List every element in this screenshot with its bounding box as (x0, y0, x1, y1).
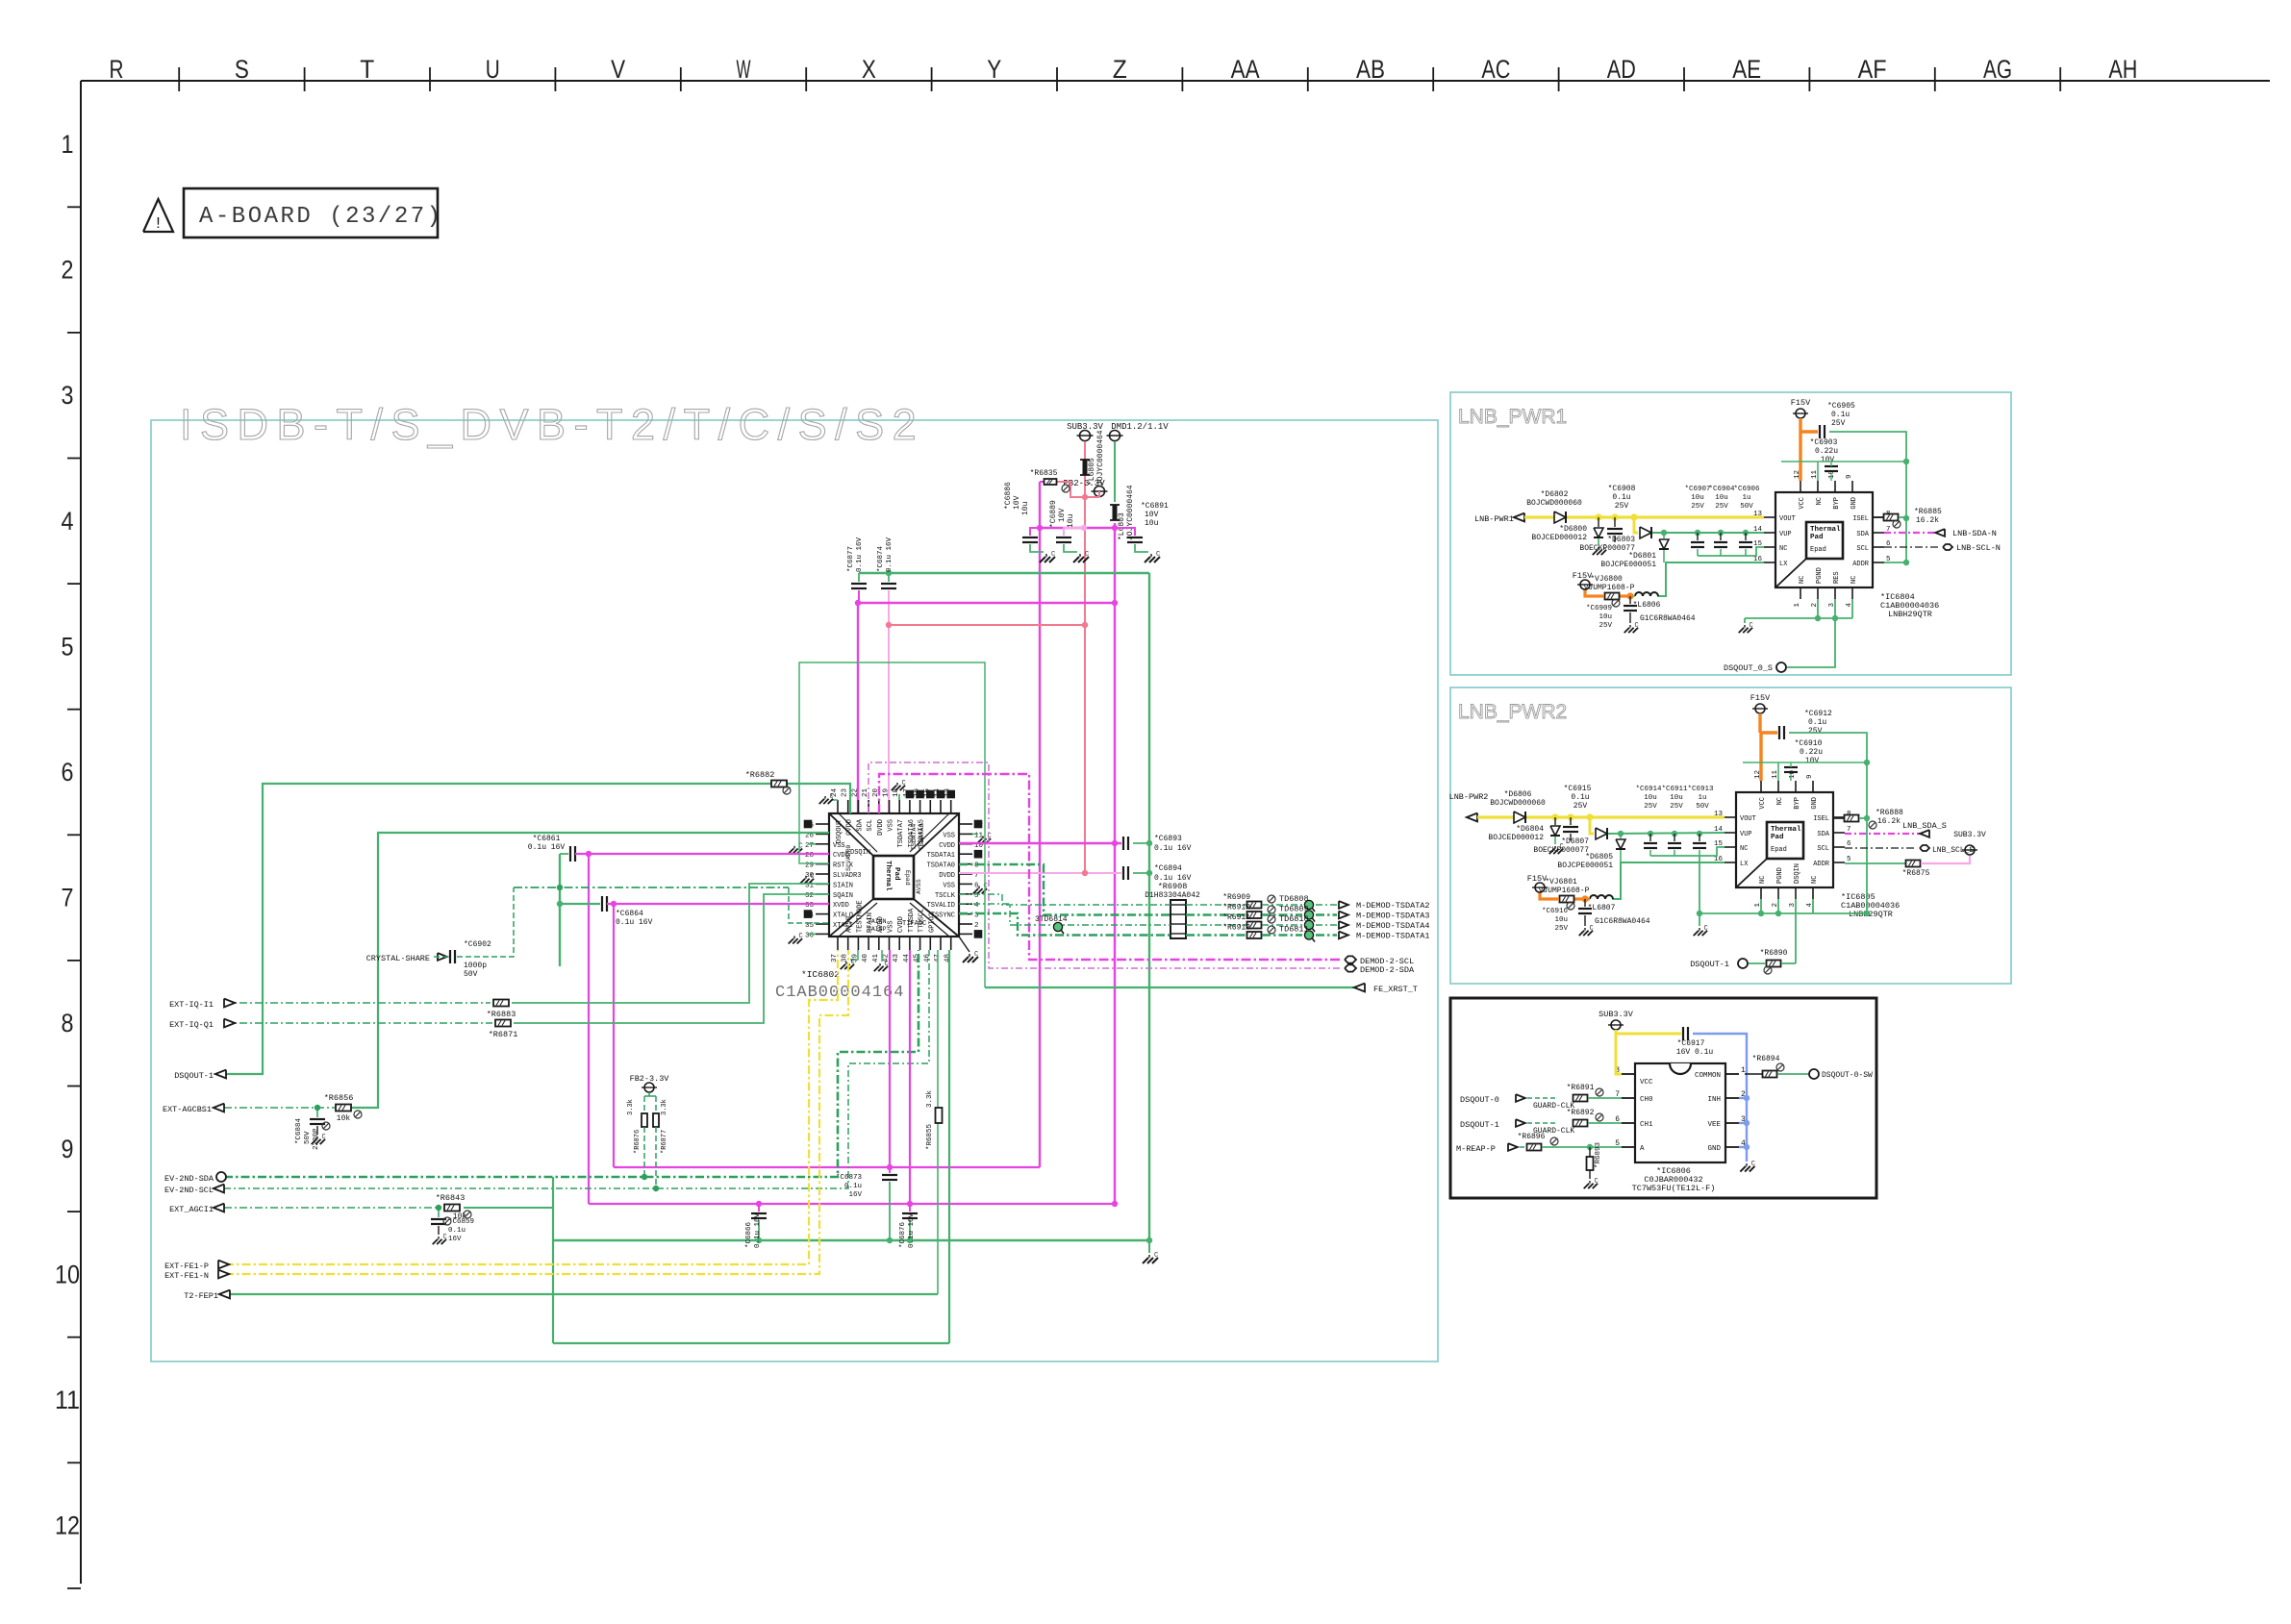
svg-text:1u: 1u (1742, 494, 1750, 502)
svg-text:32: 32 (805, 892, 814, 900)
wire DEMOD-2-SDA (thin magenta dash) (869, 762, 1343, 968)
wire CVDD cap rail (green) (559, 854, 561, 966)
IC6806 pin 2 (1725, 1097, 1739, 1099)
svg-text:VSS: VSS (943, 832, 955, 839)
svg-text:R: R (110, 55, 124, 84)
IC6802 pin 5 (959, 893, 972, 895)
wire EXT-FE1-P (yellow dash) (225, 950, 838, 1264)
capacitor C6893 (1122, 837, 1124, 850)
wire green top rail (1829, 432, 1906, 563)
capacitor C6884 (316, 1108, 318, 1117)
svg-text:25V: 25V (1670, 803, 1683, 811)
resistor R6855 (936, 1108, 943, 1123)
svg-text:3: 3 (62, 381, 74, 410)
svg-text:C: C (1156, 551, 1160, 559)
svg-text:*C6864: *C6864 (616, 910, 643, 918)
svg-text:25V: 25V (1573, 802, 1588, 811)
IC6802 pin 22 (857, 800, 859, 813)
IC6802 pin 42 (889, 937, 891, 950)
resistor *R6912 (1247, 932, 1262, 938)
svg-text:DSQOUT-1: DSQOUT-1 (174, 1071, 214, 1081)
thermal pad (1806, 522, 1843, 559)
zener D6804 (1554, 817, 1556, 825)
svg-text:M-REAP-P: M-REAP-P (1456, 1144, 1496, 1154)
svg-text:F15V: F15V (1527, 874, 1548, 884)
terminator pin12 (974, 820, 981, 827)
IC6806 pin 4 (1725, 1146, 1739, 1148)
svg-text:BYP: BYP (1833, 497, 1841, 510)
svg-text:DSQOUT_0_S: DSQOUT_0_S (1724, 663, 1773, 673)
pin 11 (1777, 781, 1779, 792)
IC6802 pin 12 (959, 823, 972, 825)
svg-text:TC7W53FU(TE12L-F): TC7W53FU(TE12L-F) (1632, 1184, 1716, 1193)
svg-text:DSQIN: DSQIN (1794, 863, 1801, 884)
svg-text:*C6906: *C6906 (1733, 486, 1760, 493)
svg-text:C: C (443, 1234, 447, 1241)
svg-text:10V: 10V (1013, 495, 1021, 510)
svg-text:6: 6 (974, 882, 979, 889)
svg-text:1000p: 1000p (464, 962, 487, 970)
thermal pad (1767, 822, 1803, 859)
svg-text:AA: AA (1231, 55, 1260, 84)
row tick (67, 960, 81, 962)
IC6802 pin 9 (959, 853, 972, 855)
pin 16 (1764, 562, 1775, 563)
IC6802 corner diagonals (829, 813, 873, 856)
svg-text:VUP: VUP (1779, 531, 1792, 538)
pin 8 (1873, 516, 1884, 518)
wire TSDATA line 3 (959, 904, 1171, 925)
row tick (67, 1337, 81, 1338)
svg-text:C: C (830, 793, 834, 801)
ground pins 39-41 (850, 950, 858, 960)
svg-text:NC: NC (1799, 576, 1806, 584)
svg-text:COMMON: COMMON (1695, 1072, 1721, 1080)
wire LX loop (green) (1612, 862, 1725, 899)
svg-text:AH: AH (2108, 55, 2137, 84)
svg-text:Epad: Epad (1771, 846, 1787, 854)
svg-text:C: C (1704, 925, 1708, 933)
svg-text:1: 1 (62, 130, 74, 159)
svg-text:*R6911: *R6911 (1222, 913, 1250, 922)
svg-text:LX: LX (1740, 861, 1749, 868)
svg-text:DVDD: DVDD (939, 872, 955, 880)
wire EV-2ND-SCL (dash green) (224, 950, 929, 1188)
resistor R6876 network (648, 1092, 650, 1096)
svg-text:TESTMODE: TESTMODE (856, 900, 864, 933)
svg-text:*R6877: *R6877 (661, 1130, 668, 1154)
row tick (67, 709, 81, 711)
svg-text:*R6888: *R6888 (1876, 809, 1903, 817)
svg-text:0.1u 16V: 0.1u 16V (754, 1212, 762, 1248)
svg-text:*R6835: *R6835 (1030, 469, 1058, 478)
svg-text:GPIO2: GPIO2 (928, 912, 936, 933)
wire SUB3.3V rail (salmon) (1084, 441, 1086, 873)
pin 1 (1800, 587, 1801, 599)
svg-text:EXT_AGCI1: EXT_AGCI1 (169, 1205, 214, 1214)
svg-text:TSDATA1: TSDATA1 (927, 852, 955, 860)
wire VCC (yellow) (1616, 1030, 1681, 1034)
svg-text:G1C6R8WA0464: G1C6R8WA0464 (1595, 917, 1650, 926)
svg-text:5: 5 (62, 632, 74, 661)
resistor R6896 (1527, 1144, 1542, 1151)
svg-text:U: U (486, 55, 500, 84)
svg-text:16V: 16V (448, 1236, 462, 1243)
svg-text:TAINN: TAINN (868, 918, 887, 925)
svg-text:*C6877: *C6877 (847, 546, 855, 572)
svg-text:*R6876: *R6876 (634, 1130, 642, 1154)
svg-text:43: 43 (893, 954, 900, 963)
terminator pin13 top (947, 790, 954, 797)
warning triangle (143, 199, 173, 232)
svg-text:NC: NC (1759, 876, 1767, 884)
svg-text:ISEL: ISEL (1813, 815, 1829, 823)
svg-text:T: T (360, 55, 374, 84)
ground pin36 (808, 933, 816, 935)
terminator pin1 (974, 931, 981, 937)
svg-text:2: 2 (974, 922, 979, 930)
IC6802 pin 20 (878, 800, 880, 813)
resistor *R6910 (1247, 912, 1262, 918)
LNB_PWR1 block border (1450, 392, 2011, 675)
diode D6805 (1620, 834, 1622, 838)
svg-text:9: 9 (1846, 474, 1853, 479)
svg-text:AVSS: AVSS (846, 916, 854, 933)
svg-text:1u: 1u (1698, 794, 1706, 802)
svg-text:C1AB00004164: C1AB00004164 (775, 984, 904, 1002)
svg-text:C: C (851, 959, 855, 966)
svg-text:16.2k: 16.2k (1916, 516, 1939, 525)
ground pin11 (972, 833, 978, 835)
svg-text:VEE: VEE (1707, 1121, 1721, 1129)
TSDATA arrow (1339, 901, 1348, 909)
wire DEMOD-2-SCL (bold magenta dash-dot) (879, 774, 1343, 960)
wire TSDATA line 4 (959, 913, 1171, 936)
svg-text:F15V: F15V (1791, 398, 1811, 408)
wire ADDR (green) (1884, 562, 1906, 563)
svg-text:*C6889: *C6889 (1049, 500, 1058, 528)
svg-text:VUP: VUP (1740, 831, 1752, 838)
IC6802 pin 4 (959, 903, 972, 905)
wire PB2 stub (salmon) (1070, 482, 1099, 497)
wire pin28 (magenta) (575, 853, 829, 855)
svg-text:NC: NC (1850, 576, 1858, 584)
svg-text:M-DEMOD-TSDATA4: M-DEMOD-TSDATA4 (1356, 921, 1430, 931)
svg-text:GND: GND (1850, 497, 1858, 510)
svg-text:1: 1 (1794, 603, 1801, 608)
svg-text:Pad: Pad (1810, 534, 1824, 541)
svg-text:VCC: VCC (1640, 1079, 1653, 1087)
svg-text:10V: 10V (1821, 456, 1835, 464)
svg-text:TSDATA3: TSDATA3 (919, 824, 925, 850)
svg-text:10V: 10V (1145, 511, 1159, 519)
terminator pin15 top (927, 790, 934, 797)
svg-text:C: C (799, 933, 803, 940)
svg-text:NC: NC (1740, 845, 1748, 853)
svg-text:DVDD: DVDD (877, 819, 885, 836)
IC6802 pin 16 (919, 800, 921, 813)
row tick (67, 458, 81, 460)
ground pins 42 (881, 950, 883, 962)
wire thin green frame (799, 662, 985, 987)
IC6802 pin 25 (816, 823, 829, 825)
svg-text:*R6908: *R6908 (1158, 882, 1188, 891)
column tick (2059, 67, 2061, 91)
svg-text:46: 46 (923, 954, 931, 963)
wire LX loop (green) (1657, 562, 1764, 596)
pin 9 (1851, 481, 1853, 492)
svg-text:M-DEMOD-TSDATA2: M-DEMOD-TSDATA2 (1356, 901, 1430, 911)
IC6802 pin 18 (898, 800, 900, 813)
svg-text:S: S (235, 55, 249, 84)
IC6802 pin 37 (837, 937, 839, 950)
svg-text:3.3k: 3.3k (661, 1099, 668, 1115)
IC6802 pin 47 (940, 937, 942, 950)
svg-text:Thermal: Thermal (884, 861, 892, 891)
resistor R6856 (336, 1105, 351, 1112)
svg-text:*D6800: *D6800 (1559, 525, 1587, 534)
svg-text:*C6884: *C6884 (295, 1117, 303, 1144)
svg-text:50V: 50V (304, 1131, 312, 1144)
svg-text:C: C (1751, 1161, 1755, 1168)
wire TSDATA line 2 (959, 864, 1171, 915)
svg-text:BOJCED000012: BOJCED000012 (1488, 834, 1544, 842)
svg-text:SLVADR0: SLVADR0 (845, 845, 852, 871)
svg-text:*C6909: *C6909 (1586, 605, 1612, 612)
wire LNB-SCL-N (black dash-dot) (1884, 546, 1939, 548)
ground bus y1290 (1148, 1240, 1150, 1253)
diode D6807 (1596, 828, 1607, 839)
svg-text:AB: AB (1356, 55, 1385, 84)
svg-text:PGND: PGND (1776, 867, 1784, 884)
svg-text:*C6904: *C6904 (1708, 486, 1735, 493)
svg-text:10u: 10u (1715, 494, 1728, 502)
svg-text:A: A (1640, 1145, 1645, 1153)
svg-text:10: 10 (55, 1260, 80, 1288)
row tick (67, 1211, 81, 1212)
svg-text:SLVADR3: SLVADR3 (833, 872, 861, 880)
svg-text:LNB_SDA_S: LNB_SDA_S (1902, 821, 1947, 831)
wire EXT_AGCI1 (dash green) (224, 1207, 441, 1209)
wire yellow to D6807 (1590, 817, 1594, 834)
svg-text:NC: NC (1776, 797, 1784, 805)
svg-text:DSQOUT-0: DSQOUT-0 (1460, 1095, 1499, 1105)
svg-text:*C6912: *C6912 (1804, 710, 1832, 718)
svg-text:SDA: SDA (1856, 531, 1869, 538)
svg-text:EXT-IQ-I1: EXT-IQ-I1 (169, 1000, 214, 1010)
pin 5 (1873, 562, 1884, 563)
svg-text:NC: NC (1811, 876, 1819, 884)
svg-text:6: 6 (1847, 840, 1851, 848)
column tick (1934, 67, 1936, 91)
svg-text:AF: AF (1858, 55, 1887, 84)
IC6802 pin 38 (847, 937, 849, 950)
wire magenta vertical x612 (588, 854, 590, 1204)
resistor R6875 + SUB3.3V (1845, 862, 1905, 864)
IC6806 pin 3 (1725, 1122, 1739, 1124)
svg-text:EXT-AGCBS1: EXT-AGCBS1 (163, 1105, 212, 1114)
svg-text:0.1u 16V: 0.1u 16V (616, 918, 653, 927)
svg-text:*D6806: *D6806 (1504, 790, 1532, 799)
wire green vertical x575 to bottom rail (552, 1177, 554, 1343)
resistor R6894 (1763, 1071, 1777, 1078)
IC6802 pin 44 (909, 937, 911, 950)
svg-text:DMD1.2/1.1V: DMD1.2/1.1V (1111, 422, 1169, 432)
svg-text:DSQOUT-1: DSQOUT-1 (1460, 1120, 1499, 1130)
TSDATA arrow (1339, 921, 1348, 929)
pin 14 (1725, 832, 1736, 834)
svg-text:0.1u: 0.1u (844, 1183, 862, 1190)
svg-text:*R6875: *R6875 (1902, 869, 1930, 878)
svg-text:M-DEMOD-TSDATA3: M-DEMOD-TSDATA3 (1356, 912, 1430, 921)
svg-text:25V: 25V (1831, 419, 1846, 428)
svg-text:0.1u: 0.1u (448, 1227, 466, 1235)
svg-text:EXT-FE1-N: EXT-FE1-N (164, 1271, 209, 1281)
diode D6802 (1554, 512, 1566, 523)
pin 7 (1833, 832, 1845, 834)
svg-text:0.1u: 0.1u (1808, 718, 1826, 727)
svg-text:VSS: VSS (888, 819, 895, 832)
column tick (1683, 67, 1685, 91)
IC6802 pin 31 (816, 883, 829, 885)
svg-text:0.22u: 0.22u (1815, 447, 1838, 456)
svg-text:*VJ6800: *VJ6800 (1590, 575, 1623, 584)
svg-text:ISDB-T/S_DVB-T2/T/C/S/S2: ISDB-T/S_DVB-T2/T/C/S/S2 (180, 400, 924, 449)
svg-text:C: C (1595, 1178, 1599, 1186)
terminator pin17 top (906, 790, 913, 797)
capacitor C6917 (1682, 1027, 1684, 1040)
svg-text:Y: Y (987, 55, 1001, 84)
resistor *R6911 (1247, 922, 1262, 929)
svg-text:*C6893: *C6893 (1154, 835, 1182, 843)
capacitor C6876 (909, 1204, 911, 1212)
capacitor C6909 (1629, 596, 1631, 604)
svg-text:LX: LX (1779, 561, 1788, 568)
IC6802 pin 15 (929, 800, 931, 813)
svg-text:Pad: Pad (1771, 834, 1784, 841)
svg-text:*R6885: *R6885 (1914, 508, 1942, 516)
svg-text:TSDATA4: TSDATA4 (911, 824, 918, 850)
svg-text:TD6808: TD6808 (1279, 894, 1309, 904)
terminator pin25 (804, 820, 811, 827)
svg-text:*D6804: *D6804 (1516, 825, 1544, 834)
wire caps gnd bus to NC pin (1698, 555, 1746, 557)
IC U-IC6802 demodulator body (829, 813, 959, 937)
svg-text:*C6903: *C6903 (1810, 438, 1838, 447)
resistor R6871 (495, 1020, 511, 1027)
IC6802 pin 26 (816, 833, 829, 835)
svg-text:LNB-SDA-N: LNB-SDA-N (1952, 529, 1997, 538)
IC6802 thermal pad (873, 856, 914, 899)
wire DMD1.2 rail (green) (1114, 441, 1116, 502)
svg-text:*C6905: *C6905 (1827, 402, 1855, 411)
IC6802 pin 17 (909, 800, 911, 813)
IC6802 pin 6 (959, 883, 972, 885)
resistor R6890 (1767, 961, 1781, 967)
svg-text:*C6861: *C6861 (533, 835, 561, 843)
pin 6 (1873, 546, 1884, 548)
svg-text:C: C (1051, 551, 1055, 559)
svg-text:*C6859: *C6859 (448, 1218, 474, 1226)
svg-text:45: 45 (914, 954, 921, 963)
resistor R6888 (1833, 817, 1844, 819)
svg-text:CVDD: CVDD (939, 842, 955, 850)
column tick (178, 67, 180, 91)
terminator pin34 (804, 911, 811, 917)
pin 4 (1851, 587, 1853, 599)
svg-text:*C6894: *C6894 (1154, 864, 1182, 873)
IC6802 pin 45 (919, 937, 921, 950)
svg-text:*R6896: *R6896 (1518, 1133, 1546, 1141)
IC6802 pin 8 (959, 863, 972, 865)
pin 11 (1817, 481, 1819, 492)
pin 3 (1795, 887, 1797, 899)
svg-text:ADDR: ADDR (1813, 861, 1830, 868)
IC6802 pin 11 (959, 833, 972, 835)
terminator pin16 top (917, 790, 923, 797)
svg-text:TD6811: TD6811 (1279, 925, 1309, 935)
wire VUP (green) (1608, 833, 1725, 834)
svg-text:AG: AG (1983, 55, 2012, 84)
capacitor C6916 (1584, 899, 1586, 907)
inductor L6803 (1113, 505, 1117, 520)
svg-text:*C6916: *C6916 (1542, 908, 1569, 915)
svg-text:*C6917: *C6917 (1677, 1039, 1705, 1048)
svg-text:EV-2ND-SDA: EV-2ND-SDA (164, 1174, 214, 1184)
wire magenta bus y627 (858, 602, 1115, 604)
svg-text:ISEL: ISEL (1852, 515, 1869, 523)
wire EXT-FE1-N (yellow dash) (225, 950, 848, 1274)
pin 2 (1777, 887, 1779, 899)
svg-text:LNB_PWR1: LNB_PWR1 (1458, 406, 1567, 428)
wire pin19 net (light pink) (888, 590, 890, 813)
svg-text:10u: 10u (1145, 519, 1159, 528)
pin 10 (1795, 781, 1797, 792)
svg-text:C: C (811, 873, 815, 881)
wire DSQOUT-1 net (green) (226, 784, 850, 1074)
IC6802 pin 41 (878, 937, 880, 950)
wire DSQOUT_0_S (green) (1787, 618, 1835, 667)
svg-text:XVDD: XVDD (833, 902, 849, 910)
sheet title box A-BOARD (23/27) (184, 188, 438, 237)
svg-text:LNB_PWR2: LNB_PWR2 (1458, 701, 1567, 723)
svg-text:*R6909: *R6909 (1222, 893, 1250, 902)
resistor R6885 (1873, 516, 1883, 518)
wire RST/AGC net (green) (352, 833, 829, 1108)
svg-text:TD6810: TD6810 (1279, 914, 1309, 924)
pin 9 (1812, 781, 1814, 792)
pin 1 (1760, 887, 1762, 899)
wire pin44 magenta drop (909, 950, 911, 1204)
wire magenta vertical CVDD rail (1039, 482, 1041, 1167)
column tick (931, 67, 933, 91)
svg-text:TIFAGC: TIFAGC (902, 920, 926, 928)
column tick (1808, 67, 1810, 91)
wire LNB_PWR1 VOUT bus (yellow) (1524, 515, 1764, 518)
svg-text:19: 19 (883, 788, 891, 797)
IC6802 pin 33 (816, 903, 829, 905)
svg-text:10u: 10u (1599, 613, 1612, 621)
svg-text:VOUT: VOUT (1779, 515, 1796, 523)
ground pin27 (808, 843, 816, 845)
svg-text:*C6911: *C6911 (1661, 786, 1688, 793)
svg-text:41: 41 (872, 954, 880, 963)
svg-text:CH0: CH0 (1640, 1096, 1653, 1104)
svg-text:DEMOD-2-SDA: DEMOD-2-SDA (1360, 965, 1415, 975)
svg-text:CRYSTAL-SHARE: CRYSTAL-SHARE (366, 954, 430, 963)
svg-text:Pad: Pad (893, 867, 900, 881)
terminator pin14 top (937, 790, 944, 797)
